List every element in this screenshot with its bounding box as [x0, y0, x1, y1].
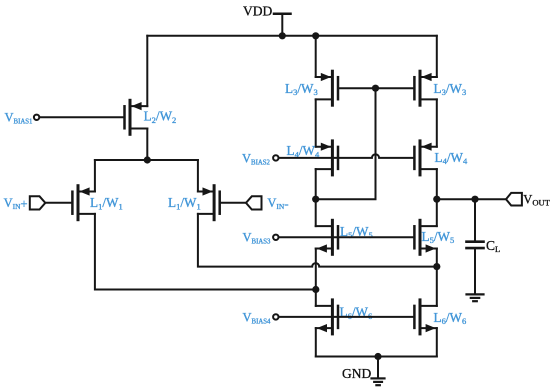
wire left L1 drain down and right to left folding node: [95, 214, 316, 290]
wire left L6 source down: [315, 328, 317, 356]
junction GND connection: [374, 353, 381, 360]
junction tail node: [144, 156, 151, 163]
wire VIN+ to left L1 gate: [45, 202, 72, 204]
wire left L4 drain down: [315, 169, 317, 199]
wire VBIAS1 to L2 gate: [40, 116, 125, 118]
svg-text:L4/W4: L4/W4: [435, 150, 468, 166]
wire right cascode drop VDD to L3 source: [436, 36, 438, 77]
wire right L3 drain to right L4 source: [436, 99, 438, 146]
output port tag VOUT: [506, 193, 522, 206]
wire VIN- to right L1 gate: [220, 202, 246, 204]
svg-text:VDD: VDD: [243, 3, 272, 18]
svg-text:L6/W6: L6/W6: [340, 305, 373, 321]
transistor L4/W4 right (PMOS cascode): [414, 141, 436, 175]
junction L3 gate node: [372, 85, 379, 92]
junction left cascode drop on rail: [312, 32, 319, 39]
wire gate node down to left L4 drain (mid vertical): [316, 88, 376, 199]
wire VBIAS2 to L4 gates (hop over mid vertical): [279, 154, 414, 158]
wire left L1 source up: [94, 160, 96, 192]
transistor L6/W6 right (NMOS current sink): [414, 300, 436, 334]
wire L3 common gate line: [338, 87, 414, 89]
transistor L5/W5 left (NMOS cascode): [316, 220, 338, 254]
VDD power symbol: [274, 14, 291, 36]
svg-text:L5/W5: L5/W5: [422, 229, 455, 245]
wire right L1 source up: [197, 160, 199, 192]
wire left cascode drop VDD to L3 source: [315, 36, 317, 77]
junction right folding node (L1 drain / L5 source / L6 drain): [433, 263, 440, 270]
wire tail rail: [95, 159, 198, 161]
svg-text:L2/W2: L2/W2: [144, 109, 177, 125]
terminal circle VBIAS2: [273, 155, 278, 160]
transistor L1/W1 left input (PMOS, VIN+): [72, 186, 95, 220]
wire L2 source up to VDD rail: [146, 36, 148, 106]
transistor L5/W5 right (NMOS cascode): [414, 220, 436, 254]
input port tag VIN-: [246, 196, 262, 209]
wire right L6 source down: [436, 328, 438, 356]
transistor L4/W4 left (PMOS cascode): [316, 141, 338, 175]
svg-text:GND: GND: [342, 366, 371, 381]
wire right L5 source down to right L6 drain: [436, 249, 438, 306]
svg-text:L1/W1: L1/W1: [90, 195, 123, 211]
junction left cascode node (L4 drain / L5 drain): [312, 196, 319, 203]
wire VBIAS4 to L6 gates: [279, 316, 414, 318]
transistor L3/W3 right (PMOS mirror): [414, 71, 436, 105]
wire right L1 drain down and right to right folding node (hop over x=315.7): [198, 214, 437, 267]
terminal circle VBIAS3: [273, 235, 278, 240]
junction CL tap: [471, 196, 478, 203]
wire left node down to left L5 drain: [315, 199, 317, 226]
svg-text:L3/W3: L3/W3: [434, 81, 467, 97]
junction VDD stub on rail: [279, 32, 286, 39]
wire left L3 drain to left L4 source: [315, 99, 317, 146]
wire CL bottom: [474, 249, 476, 294]
wire output line: [437, 198, 506, 200]
wire VBIAS3 to L5 gates: [279, 236, 414, 238]
svg-text:L1/W1: L1/W1: [168, 195, 201, 211]
wire bottom source rail: [316, 356, 437, 358]
wire VDD rail: [147, 35, 437, 37]
wire left L5 source down to left L6 drain: [315, 249, 317, 306]
wire output node down to right L5 drain: [436, 199, 438, 226]
ground symbol GND: [372, 378, 385, 385]
wire CL top: [474, 199, 476, 240]
svg-text:L6/W6: L6/W6: [434, 310, 467, 326]
junction output node left: [433, 196, 440, 203]
wire right L4 drain down to output node: [436, 169, 438, 199]
transistor L2/W2 tail current source (PMOS): [125, 100, 148, 134]
wire GND stub: [377, 357, 379, 378]
terminal circle VBIAS4: [273, 314, 278, 319]
transistor L3/W3 left (PMOS mirror): [316, 71, 338, 105]
capacitor CL: [467, 242, 484, 248]
wire L2 drain down to tail node: [146, 129, 148, 161]
terminal circle VBIAS1: [34, 115, 39, 120]
svg-text:L3/W3: L3/W3: [285, 81, 318, 97]
input port tag VIN+: [30, 196, 46, 209]
ground symbol at CL: [467, 294, 484, 301]
transistor L1/W1 right input (PMOS, VIN-): [198, 186, 220, 220]
junction left folding node (L1 drain / L5 source / L6 drain): [312, 286, 319, 293]
transistor L6/W6 left (NMOS current sink): [316, 300, 338, 334]
